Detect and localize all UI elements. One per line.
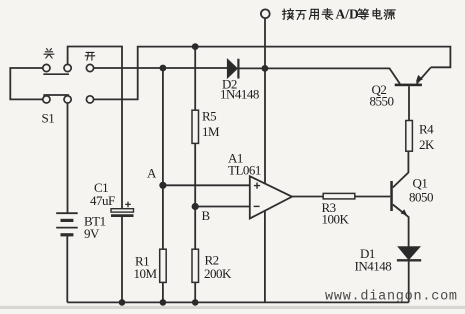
- wire: D2 cathode to Q2 collector: [238, 68, 400, 83]
- svg-text:47uF: 47uF: [90, 193, 115, 208]
- svg-text:200K: 200K: [204, 266, 232, 281]
- svg-text:8550: 8550: [370, 94, 394, 109]
- wire: D1 cathode to ground rail: [408, 261, 410, 302]
- label 关 (off position): [44, 49, 54, 58]
- wire: R2 to ground rail: [194, 282, 196, 302]
- svg-text:IN4148: IN4148: [355, 259, 392, 274]
- wire: terminal down through rail to op-amp V+: [264, 18, 266, 183]
- wire: C1 negative plate to ground rail: [121, 216, 123, 303]
- node B: [192, 203, 199, 210]
- junction: R1 on rail: [160, 299, 167, 306]
- wire: op-amp V- to ground rail: [264, 211, 266, 302]
- bottom edge shading: [0, 306, 465, 309]
- battery BT1: [56, 213, 77, 235]
- svg-text:R4: R4: [419, 122, 434, 137]
- wire: S1 bottom-centre pole down to battery: [67, 103, 69, 214]
- svg-text:www.diangon.com: www.diangon.com: [325, 290, 458, 305]
- op-amp U1 A1 TL061: [250, 176, 292, 218]
- svg-text:1M: 1M: [202, 124, 220, 139]
- wire: node A to op-amp non-inverting input: [163, 184, 250, 186]
- wire: battery negative to ground rail corner: [66, 235, 68, 303]
- junction: supply tap to terminal and op-amp V+: [262, 65, 269, 72]
- resistor R4: [406, 121, 413, 152]
- wire: R3 to Q1 base: [355, 196, 391, 198]
- junction: C1 on rail: [119, 299, 126, 306]
- resistor R1: [160, 249, 167, 282]
- terminal: output to multimeter: [261, 9, 270, 18]
- junction: R5 tap on positive rail: [192, 43, 199, 50]
- svg-text:100K: 100K: [322, 212, 350, 227]
- wire: R1 to ground rail: [162, 282, 164, 302]
- wire: R5 to node B: [194, 143, 196, 249]
- svg-text:R5: R5: [202, 109, 216, 124]
- capacitor C1: [111, 202, 134, 216]
- svg-text:A: A: [147, 166, 157, 181]
- resistor R2: [192, 249, 199, 282]
- svg-text:1N4148: 1N4148: [220, 87, 259, 102]
- wire: S1 top-centre pole up and over to C1 top: [68, 47, 122, 209]
- svg-text:A/D: A/D: [336, 7, 360, 22]
- diode D2: [227, 59, 238, 79]
- svg-text:8050: 8050: [409, 190, 433, 205]
- junction: node-A branch on D2 line: [160, 65, 167, 72]
- svg-text:TL061: TL061: [228, 163, 261, 178]
- node A: [159, 182, 166, 189]
- wire: op-amp output to R3: [292, 196, 323, 198]
- resistor R5: [192, 110, 199, 143]
- wire: R4 to Q2 base: [408, 86, 410, 120]
- label 开 (on position): [85, 52, 95, 60]
- svg-text:Q1: Q1: [413, 176, 428, 191]
- svg-text:10M: 10M: [134, 266, 158, 281]
- svg-text:S1: S1: [42, 111, 55, 126]
- wire: left loop from S1 top-left pole to bottom-left pole: [10, 68, 43, 99]
- junction: R2 on rail: [192, 299, 199, 306]
- ground rail (bottom bus): [67, 301, 408, 303]
- switch S1 (DPDT slide): [43, 64, 94, 103]
- wire: S1 top-right throw to D2 anode (net with node A branch): [93, 67, 227, 69]
- wire: vertical net of node B (from top rail through R5): [194, 47, 196, 111]
- svg-text:2K: 2K: [419, 137, 435, 152]
- transistor Q2 8550: [395, 67, 431, 86]
- svg-text:B: B: [202, 208, 211, 223]
- svg-text:9V: 9V: [84, 226, 100, 241]
- wire: node B to op-amp inverting input: [195, 206, 250, 208]
- wire: vertical net of node A: [162, 68, 164, 249]
- wire: S1 bottom-right throw up to positive supply rail across top: [93, 47, 450, 100]
- resistor R3: [323, 193, 355, 199]
- diode D1: [397, 247, 421, 261]
- label 接万用表A/D等电源: [282, 7, 395, 22]
- transistor Q1 8050: [390, 151, 408, 247]
